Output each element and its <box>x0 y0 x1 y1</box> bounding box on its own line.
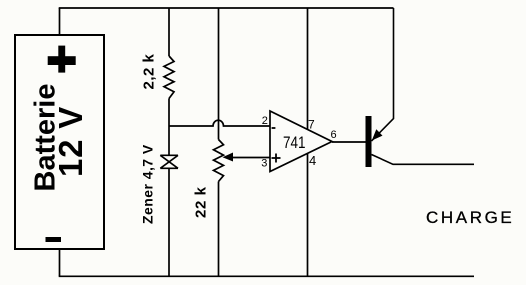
svg-text:3: 3 <box>261 158 267 170</box>
wire node A to op-amp pin 2 with hop over 22k branch <box>169 120 270 126</box>
wire top rail to potentiometer 22 k <box>218 8 220 140</box>
potentiometer 22 k <box>214 140 224 182</box>
battery minus terminal <box>46 237 62 242</box>
wire pin 4 to bottom rail <box>307 154 309 277</box>
resistor 2,2 k <box>164 56 174 99</box>
op-amp non-inverting input plus <box>272 154 281 163</box>
wire resistor 2,2 k to node A <box>168 99 170 127</box>
svg-text:6: 6 <box>331 129 337 141</box>
svg-text:12 V: 12 V <box>52 106 89 177</box>
wiper arrow wire to op-amp pin 3 <box>226 157 270 159</box>
svg-text:CHARGE: CHARGE <box>426 208 514 227</box>
transistor emitter arrowhead <box>372 129 383 140</box>
wire top rail to resistor 2,2 k <box>168 8 170 56</box>
wire top rail to pin 7 <box>307 8 309 129</box>
op-amp 741 triangle <box>270 111 332 172</box>
svg-text:Zener 4,7 V: Zener 4,7 V <box>140 144 156 224</box>
wire node A to zener <box>168 126 170 155</box>
wire battery minus to bottom rail <box>59 249 61 276</box>
battery body <box>15 35 104 249</box>
output wire pin 6 to transistor base <box>332 141 366 143</box>
svg-text:741: 741 <box>283 134 306 152</box>
wiper arrowhead <box>223 153 234 162</box>
wire battery plus to top rail <box>59 8 61 35</box>
svg-text:4: 4 <box>309 153 316 168</box>
op-amp inverting input minus <box>272 127 276 129</box>
battery plus terminal <box>48 46 76 73</box>
battery label Batterie 12 V <box>30 84 90 192</box>
svg-text:7: 7 <box>308 118 315 132</box>
svg-text:2: 2 <box>262 115 268 127</box>
wire zener to bottom rail <box>168 168 170 276</box>
svg-text:2,2 k: 2,2 k <box>141 53 158 89</box>
transistor collector wire to charge terminal <box>372 155 475 165</box>
wire potentiometer 22 k to bottom rail <box>218 182 220 277</box>
transistor emitter wire to top rail <box>372 8 394 141</box>
svg-text:22 k: 22 k <box>193 186 210 218</box>
zener diode 4,7 V <box>160 155 178 168</box>
bottom rail 0V <box>59 275 474 277</box>
top rail +12V <box>59 7 394 9</box>
transistor base bar <box>366 116 372 167</box>
